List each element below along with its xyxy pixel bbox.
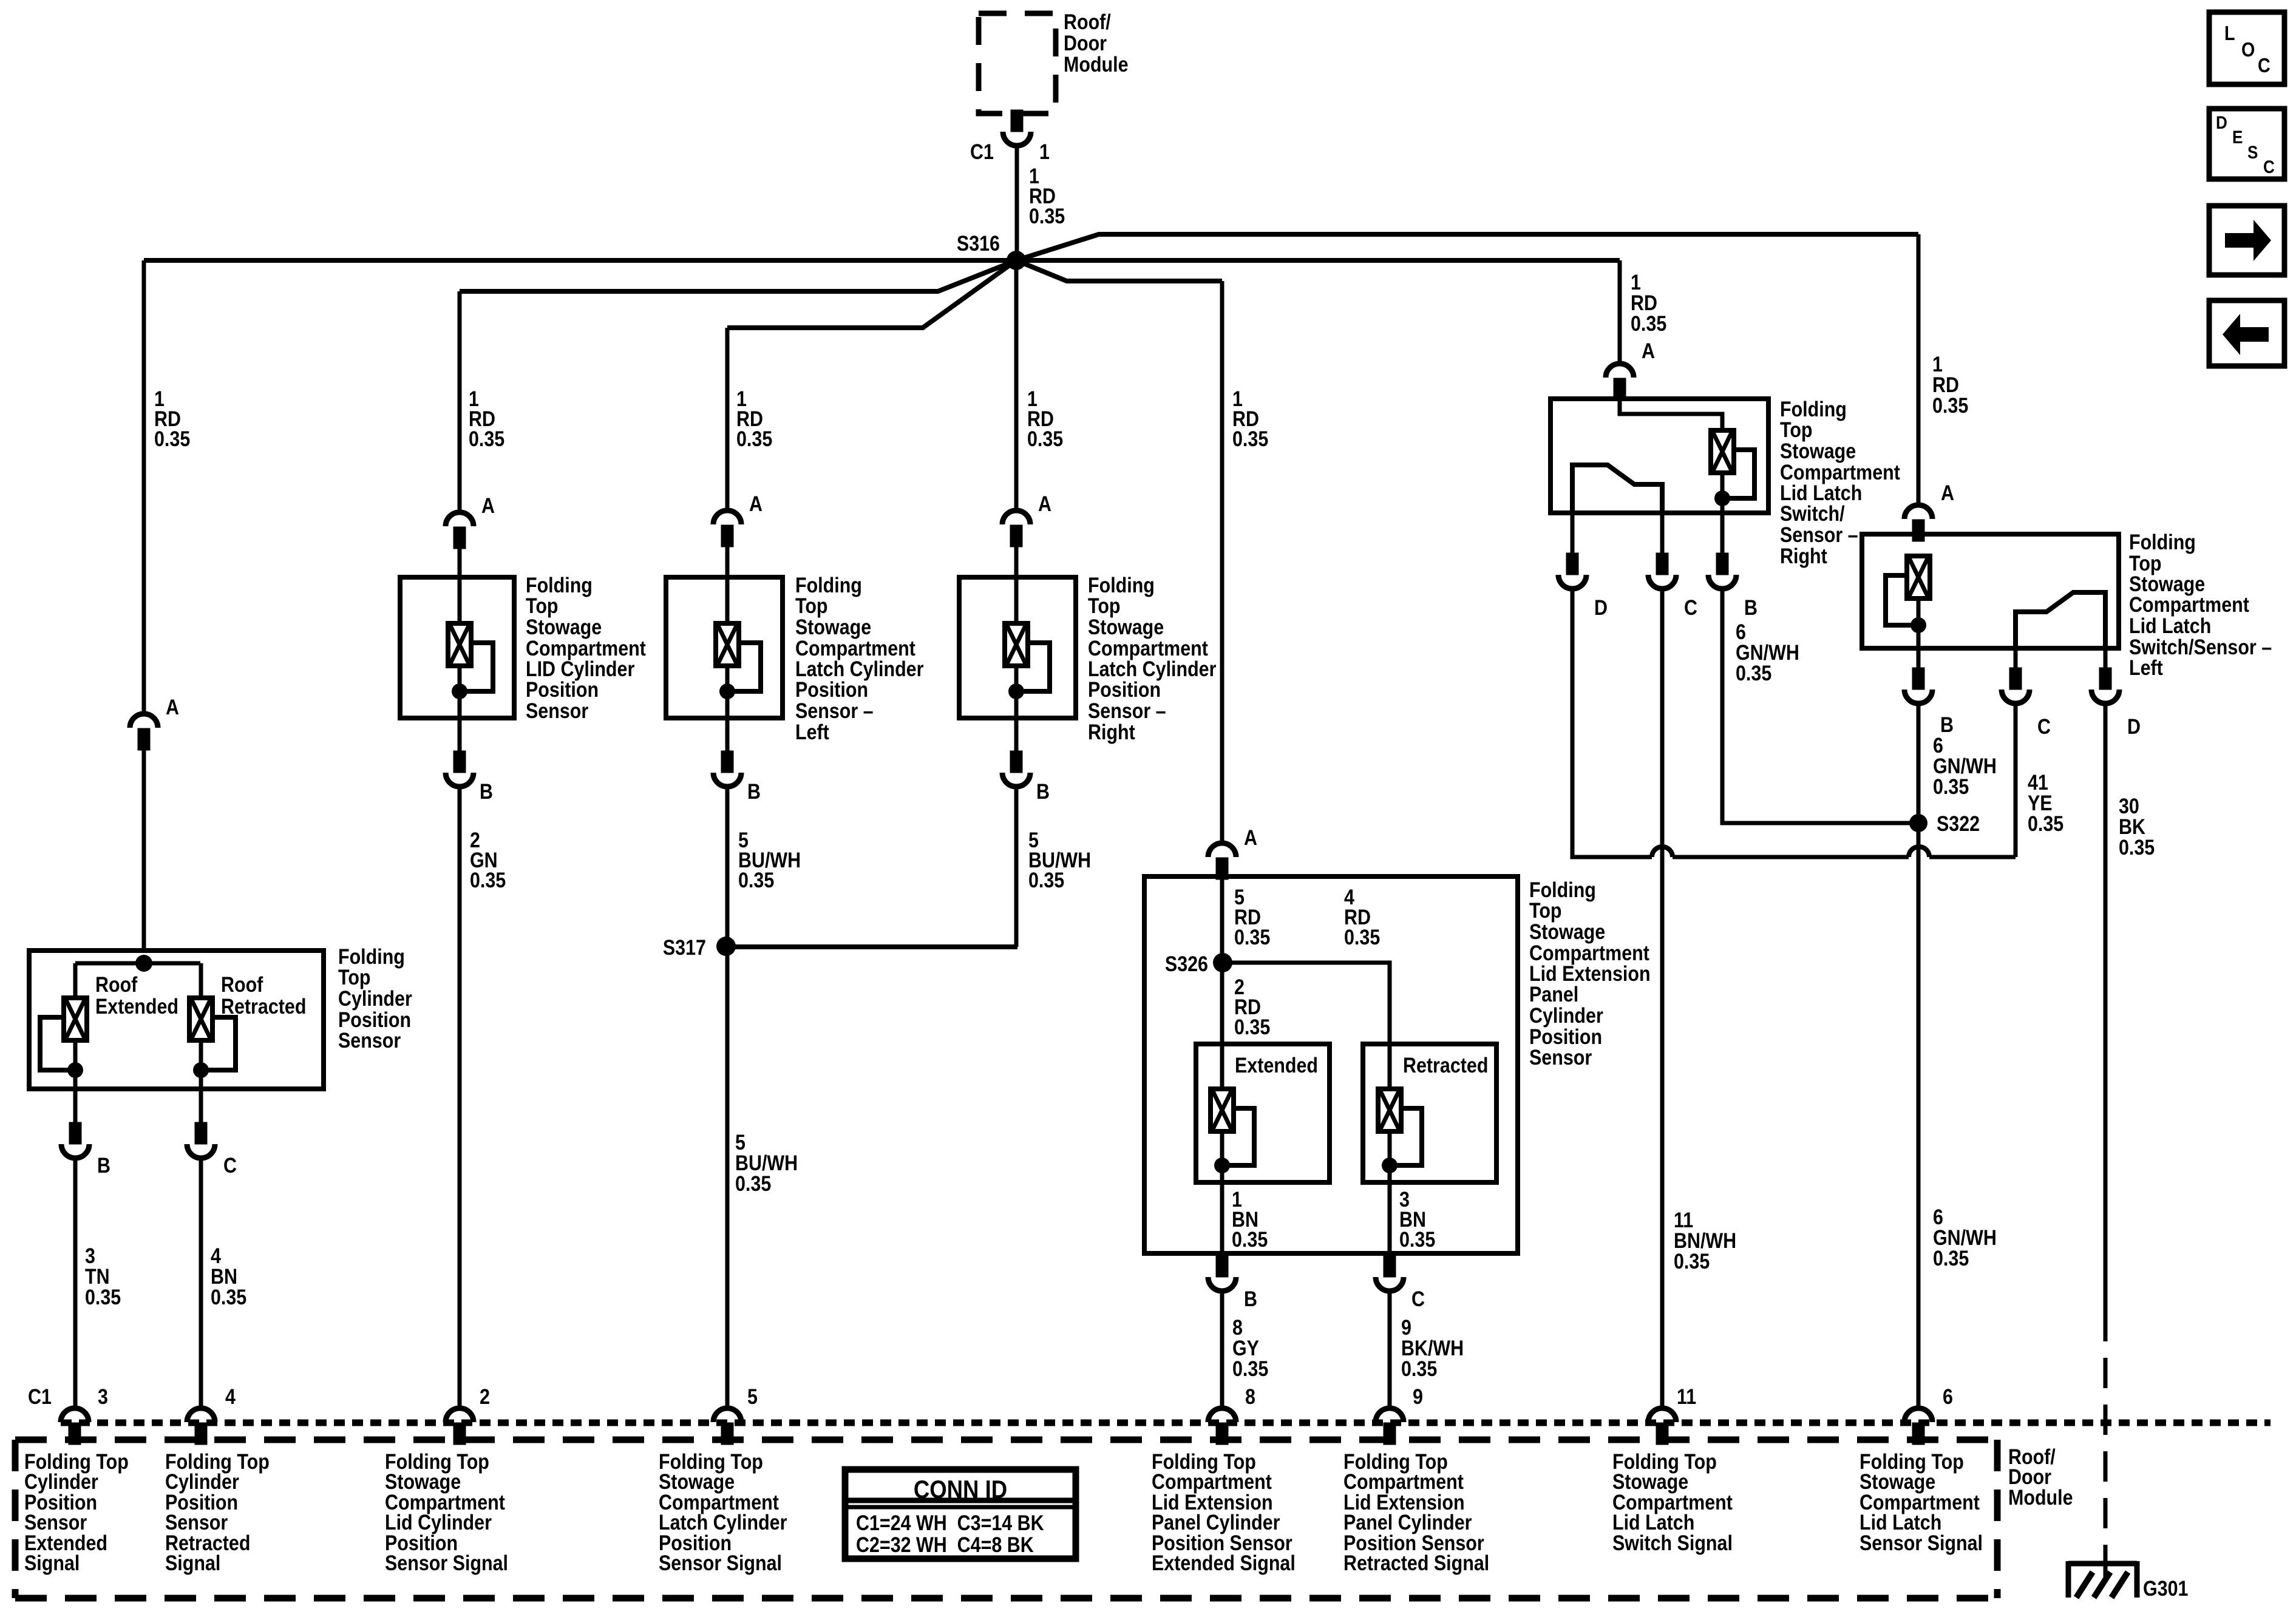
svg-text:Extended: Extended: [95, 994, 178, 1018]
connector B (lid extension): [1208, 1257, 1236, 1291]
loop (right): [201, 1017, 236, 1070]
svg-text:Position: Position: [795, 677, 868, 701]
splice S322: [1909, 814, 1927, 832]
svg-text:Lid Latch: Lid Latch: [2129, 614, 2211, 637]
wire: [142, 748, 146, 951]
svg-text:0.35: 0.35: [469, 427, 504, 450]
svg-text:0.35: 0.35: [1232, 1357, 1268, 1380]
loop (left): [40, 1017, 75, 1070]
svg-text:0.35: 0.35: [470, 868, 506, 892]
svg-text:B: B: [1036, 779, 1050, 803]
inner box Extended: [1196, 1044, 1330, 1182]
wire: S316 upper-right branch to left latch box: [1016, 234, 1918, 260]
svg-text:0.35: 0.35: [1344, 925, 1380, 949]
loop: [1390, 1108, 1422, 1165]
svg-text:0.35: 0.35: [2028, 812, 2063, 835]
sensor element (Roof Retracted): [189, 998, 212, 1040]
svg-text:C: C: [2263, 157, 2275, 177]
wire: S316 to col5: [1016, 260, 1222, 281]
loop: [1722, 450, 1754, 498]
svg-text:Extended: Extended: [1235, 1053, 1318, 1077]
svg-text:B: B: [747, 779, 761, 803]
svg-text:C1=24 WH C3=14 BK: C1=24 WH C3=14 BK: [856, 1511, 1044, 1534]
svg-text:E: E: [2232, 127, 2243, 147]
wire: [1720, 473, 1725, 513]
wire 1 RD 0.35 col5: [1220, 281, 1224, 844]
Folding Top Stowage Compartment Lid Extension Panel Cylinder Position Sensor box: [1144, 876, 1518, 1253]
svg-text:C: C: [1411, 1287, 1425, 1310]
svg-text:Retracted Signal: Retracted Signal: [1343, 1551, 1489, 1574]
connector pin 4 (bottom module): [187, 1408, 215, 1443]
node: sensor loop junction: [67, 1062, 83, 1078]
dotted connector line: [61, 1420, 2271, 1426]
svg-text:0.35: 0.35: [2119, 835, 2155, 859]
connector B (col4): [1002, 753, 1030, 787]
wire 1 RD 0.35 col4: [1014, 260, 1019, 511]
svg-text:Stowage: Stowage: [795, 615, 871, 639]
sensor element (latch right): [1711, 430, 1734, 473]
svg-text:Folding: Folding: [2129, 530, 2196, 554]
wire: [1014, 545, 1019, 577]
svg-text:C2=32 WH C4=8 BK: C2=32 WH C4=8 BK: [856, 1533, 1034, 1556]
svg-text:9: 9: [1413, 1384, 1423, 1408]
svg-text:Left: Left: [2129, 656, 2163, 679]
svg-text:Sensor Signal: Sensor Signal: [659, 1551, 782, 1574]
svg-text:Stowage: Stowage: [1529, 920, 1605, 943]
connector pin 3 (bottom module): [61, 1408, 89, 1443]
connector B (latch right): [1720, 513, 1725, 555]
svg-text:3: 3: [98, 1384, 108, 1408]
wire: S316 main horizontal to col1 and right latch box A: [144, 258, 1620, 263]
wire 4 BN 0.35: [199, 1158, 203, 1409]
svg-text:Top: Top: [1088, 594, 1121, 617]
wire 9 BK/WH 0.35: [1388, 1291, 1392, 1409]
loop: [1016, 643, 1050, 691]
svg-text:4: 4: [225, 1384, 236, 1408]
node: sensor loop junction: [193, 1062, 209, 1078]
wire: [725, 545, 730, 577]
wire: entry jog: [1620, 399, 1722, 430]
node: sensor loop junction: [1714, 490, 1730, 506]
svg-text:A: A: [1038, 492, 1051, 515]
wire 1 RD 0.35 to left latch box: [1917, 234, 1921, 506]
node: sensor loop junction: [452, 683, 467, 699]
wire: [458, 666, 462, 753]
svg-text:0.35: 0.35: [1234, 925, 1270, 949]
connector pin 11 (bottom module): [1648, 1408, 1676, 1443]
svg-text:Stowage: Stowage: [1780, 439, 1856, 463]
svg-text:D: D: [2127, 714, 2141, 738]
CONN ID table: [845, 1469, 1076, 1559]
svg-text:B: B: [97, 1153, 110, 1177]
svg-text:6: 6: [1943, 1384, 1953, 1408]
wire: [458, 547, 462, 577]
svg-text:Sensor: Sensor: [338, 1028, 401, 1052]
svg-text:0.35: 0.35: [736, 427, 772, 450]
svg-text:B: B: [480, 779, 493, 803]
svg-text:0.35: 0.35: [1232, 1227, 1268, 1251]
connector A (col3): [713, 510, 741, 545]
wire: [725, 577, 730, 623]
Folding Top Stowage Compartment Lid Latch Switch/Sensor - Left box: [1862, 534, 2119, 648]
connector C (lid extension): [1376, 1257, 1404, 1291]
connector A (col2): [446, 512, 474, 547]
svg-text:Right: Right: [1780, 544, 1827, 568]
svg-text:A: A: [1244, 825, 1257, 849]
connector pin 9 (bottom module): [1376, 1408, 1404, 1443]
sensor element (Retracted): [1378, 1089, 1401, 1131]
connector pin 2 (bottom module): [446, 1408, 474, 1443]
svg-text:Cylinder: Cylinder: [338, 986, 412, 1010]
wire: S316 to col3: [727, 260, 1016, 328]
wire 2 RD 0.35: [1220, 963, 1224, 1089]
wire 3 TN 0.35: [73, 1158, 78, 1409]
connector B (col2): [446, 753, 474, 787]
splice S326: [1213, 953, 1232, 972]
svg-text:Signal: Signal: [24, 1551, 80, 1574]
wire 3 BN 0.35: [1388, 1131, 1392, 1253]
svg-text:0.35: 0.35: [1674, 1249, 1710, 1273]
Latch Cylinder Position Sensor - Right box: [959, 577, 1076, 718]
svg-text:S317: S317: [663, 935, 706, 959]
wire: internal branch: [75, 963, 201, 998]
svg-text:Roof: Roof: [221, 972, 263, 996]
wire 5 RD 0.35: [1220, 876, 1224, 963]
wire: [458, 577, 462, 623]
svg-text:A: A: [749, 492, 763, 515]
svg-text:C: C: [223, 1153, 237, 1177]
svg-text:0.35: 0.35: [1736, 661, 1771, 685]
svg-text:Roof/: Roof/: [1064, 10, 1111, 33]
svg-text:0.35: 0.35: [1933, 774, 1969, 798]
connector A (col1 cylinder position sensor): [130, 714, 158, 748]
svg-text:0.35: 0.35: [85, 1285, 121, 1309]
Roof/Door Module (top, dashed box): [979, 13, 1056, 114]
svg-text:C1: C1: [970, 140, 994, 163]
splice S317: [716, 937, 736, 956]
wire 1 RD 0.35 col1: [142, 260, 146, 714]
svg-text:C: C: [2258, 54, 2271, 76]
splice S316: [1007, 251, 1026, 270]
svg-text:C1: C1: [28, 1384, 52, 1408]
svg-text:L: L: [2224, 22, 2235, 44]
loop: [460, 643, 493, 691]
svg-text:Roof: Roof: [95, 972, 137, 996]
wire: [725, 666, 730, 753]
svg-text:Stowage: Stowage: [526, 615, 602, 639]
connector C (latch left): [2014, 648, 2018, 669]
node: sensor loop junction: [1008, 683, 1024, 699]
svg-text:CONN ID: CONN ID: [914, 1476, 1007, 1504]
svg-text:0.35: 0.35: [1029, 204, 1065, 228]
svg-text:0.35: 0.35: [735, 1171, 771, 1195]
svg-text:Sensor Signal: Sensor Signal: [1860, 1531, 1983, 1554]
Folding Top Stowage Compartment Lid Latch Switch/Sensor - Right box: [1550, 399, 1768, 513]
node: sensor loop junction: [1911, 617, 1926, 633]
svg-text:B: B: [1244, 1287, 1257, 1310]
connector D (latch right): [1571, 513, 1575, 555]
svg-text:O: O: [2241, 38, 2255, 61]
svg-text:Retracted: Retracted: [1403, 1053, 1488, 1077]
node: sensor loop junction: [1214, 1157, 1230, 1173]
connector A (col4): [1002, 510, 1030, 545]
svg-text:0.35: 0.35: [1028, 868, 1064, 892]
wire 5 BU/WH 0.35: [725, 787, 730, 1409]
connector B (col3): [713, 753, 741, 787]
svg-text:11: 11: [1677, 1384, 1696, 1408]
svg-text:Cylinder: Cylinder: [1529, 1003, 1603, 1027]
wire 1 RD 0.35 from C1 to S316: [1015, 146, 1019, 260]
svg-text:Left: Left: [795, 720, 829, 744]
connector C1 pin 1 (top module): [1003, 112, 1031, 146]
wire: latch right D down and across to 41 YE: [1572, 589, 2016, 857]
Roof/Door Module (bottom, dashed box): [15, 1440, 1997, 1598]
connector C (latch right): [1660, 513, 1665, 555]
svg-text:0.35: 0.35: [1027, 427, 1063, 450]
svg-text:Compartment: Compartment: [2129, 592, 2249, 616]
svg-text:C: C: [2037, 714, 2051, 738]
svg-text:Right: Right: [1088, 720, 1135, 744]
wire 4 RD 0.35 branch: [1222, 963, 1390, 1089]
sensor element: [1005, 623, 1028, 666]
icon arrow left: [2209, 300, 2284, 366]
svg-text:0.35: 0.35: [1631, 311, 1666, 335]
svg-text:G301: G301: [2143, 1576, 2188, 1600]
icon DESC: [2209, 109, 2284, 179]
connector B (col1): [61, 1124, 89, 1158]
svg-text:2: 2: [480, 1384, 490, 1408]
wire (dashed to ground): [2104, 1311, 2108, 1547]
node: sensor loop junction: [719, 683, 735, 699]
sensor element: [448, 623, 471, 666]
svg-text:Switch Signal: Switch Signal: [1612, 1531, 1733, 1554]
svg-text:D: D: [1594, 595, 1608, 619]
svg-text:S: S: [2247, 142, 2258, 162]
svg-text:Module: Module: [2008, 1485, 2073, 1509]
svg-text:Signal: Signal: [165, 1551, 220, 1574]
svg-text:Switch/: Switch/: [1780, 501, 1845, 525]
connector A (latch left): [1904, 505, 1932, 540]
node: junction inside sensor: [135, 955, 152, 972]
wire 1 RD 0.35 col2: [458, 291, 462, 513]
icon arrow right: [2209, 206, 2284, 275]
wire: [1917, 598, 1921, 648]
svg-text:Position: Position: [526, 677, 599, 701]
svg-text:Module: Module: [1064, 52, 1129, 76]
sensor element (Extended): [1211, 1089, 1234, 1131]
svg-text:Door: Door: [1064, 31, 1107, 55]
svg-text:Top: Top: [526, 594, 559, 617]
wire hop over pin6 wire: [1909, 847, 1929, 857]
svg-text:0.35: 0.35: [1399, 1227, 1435, 1251]
svg-text:Sensor –: Sensor –: [1088, 699, 1166, 722]
wire 8 GY 0.35: [1220, 1291, 1224, 1409]
svg-text:Top: Top: [795, 594, 828, 617]
svg-text:Sensor: Sensor: [1529, 1045, 1592, 1069]
svg-text:A: A: [481, 493, 495, 517]
svg-text:A: A: [1941, 481, 1954, 504]
svg-text:Sensor Signal: Sensor Signal: [385, 1551, 508, 1574]
svg-text:Retracted: Retracted: [221, 994, 306, 1018]
connector B (latch left): [1917, 648, 1921, 669]
connector D (latch left): [2104, 648, 2108, 669]
Folding Top Cylinder Position Sensor box: [29, 951, 324, 1089]
connector pin 8 (bottom module): [1208, 1408, 1236, 1443]
sensor element (Roof Extended): [64, 998, 87, 1040]
switch contact (latch left): [2016, 592, 2105, 648]
ground G301: [2068, 1561, 2137, 1598]
svg-text:0.35: 0.35: [1401, 1357, 1437, 1380]
wire: S317 to col4: [726, 944, 1017, 949]
wire: [1014, 666, 1019, 753]
svg-text:S316: S316: [957, 231, 1000, 255]
svg-text:S326: S326: [1165, 952, 1208, 975]
svg-text:C: C: [1684, 595, 1697, 619]
connector A (lid extension sensor): [1208, 843, 1236, 878]
loop: [727, 643, 761, 691]
svg-text:0.35: 0.35: [211, 1285, 246, 1309]
connector pin 6 (bottom module): [1904, 1408, 1932, 1443]
svg-text:0.35: 0.35: [738, 868, 774, 892]
wire 6 GN/WH 0.35 (right latch B to S322): [1722, 589, 1910, 823]
sensor element (latch left): [1907, 556, 1930, 598]
svg-text:Position: Position: [1088, 677, 1161, 701]
wire 41 YE 0.35: [2014, 703, 2018, 857]
wire: S316 to col2: [460, 260, 1016, 291]
svg-text:0.35: 0.35: [154, 427, 190, 450]
switch contact (latch right): [1572, 465, 1662, 513]
svg-text:Top: Top: [1529, 898, 1562, 922]
svg-text:A: A: [166, 695, 179, 719]
Folding Top Stowage Compartment LID Cylinder Position Sensor box: [400, 577, 514, 718]
svg-text:Sensor –: Sensor –: [1780, 523, 1858, 546]
svg-text:D: D: [2216, 112, 2227, 132]
connector A (latch right): [1606, 364, 1634, 398]
svg-text:Sensor –: Sensor –: [795, 699, 874, 722]
wire 1 BN 0.35: [1220, 1131, 1224, 1253]
wire 5 BU/WH 0.35 to S317 line: [1014, 787, 1019, 947]
wire: [1014, 577, 1019, 623]
svg-text:Stowage: Stowage: [1088, 615, 1164, 639]
loop: [1222, 1108, 1254, 1165]
icon LOC: [2209, 12, 2284, 84]
wire: [75, 1040, 201, 1124]
connector C (col1): [187, 1124, 215, 1158]
Latch Cylinder Position Sensor - Left box: [666, 577, 783, 718]
wire 30 BK 0.35: [2104, 703, 2108, 1311]
wire 1 RD 0.35 col3: [725, 328, 730, 511]
svg-text:Top: Top: [338, 965, 371, 989]
svg-text:B: B: [1744, 595, 1758, 619]
loop (left): [1886, 575, 1918, 625]
svg-text:5: 5: [747, 1384, 758, 1408]
svg-text:Extended Signal: Extended Signal: [1152, 1551, 1296, 1574]
inner box Retracted: [1363, 1044, 1496, 1182]
wire 6 GN/WH 0.35 (latch sensor signal): [1917, 703, 1921, 1409]
wire hop over pin11 wire: [1652, 847, 1673, 857]
svg-text:0.35: 0.35: [1933, 1246, 1969, 1270]
wire 11 BN/WH 0.35 (latch switch signal): [1660, 589, 1665, 1409]
svg-text:S322: S322: [1937, 812, 1980, 835]
svg-text:0.35: 0.35: [1234, 1015, 1270, 1039]
svg-text:0.35: 0.35: [1232, 427, 1268, 450]
svg-text:A: A: [1642, 339, 1655, 362]
connector pin 5 (bottom module): [713, 1408, 741, 1443]
svg-text:Panel: Panel: [1529, 982, 1578, 1006]
sensor element: [716, 623, 739, 666]
node: sensor loop junction: [1382, 1157, 1398, 1173]
wire 1 RD 0.35 to right latch box: [1618, 260, 1622, 364]
svg-text:1: 1: [1039, 140, 1050, 163]
svg-text:0.35: 0.35: [1932, 393, 1968, 417]
svg-text:Sensor: Sensor: [526, 699, 588, 722]
svg-text:Top: Top: [1780, 418, 1813, 441]
wire 2 GN 0.35: [458, 787, 462, 1409]
svg-text:8: 8: [1245, 1384, 1255, 1408]
